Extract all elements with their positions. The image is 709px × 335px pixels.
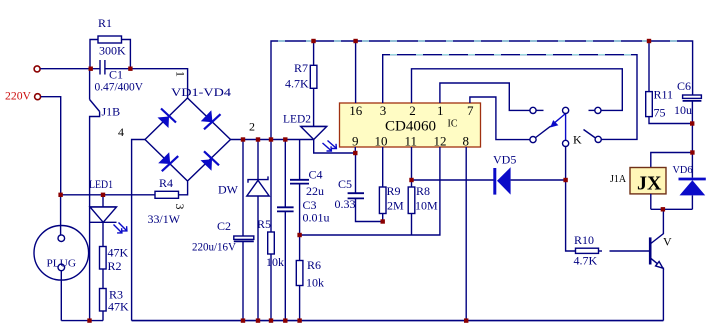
svg-text:JX: JX <box>637 173 662 195</box>
resistor R7 <box>310 41 317 127</box>
resistor R10 <box>576 248 651 253</box>
terminal input neutral <box>35 94 41 100</box>
svg-text:J1A: J1A <box>610 174 627 185</box>
diode VD1 top-left <box>158 109 177 129</box>
svg-text:DW: DW <box>218 183 239 197</box>
capacitor C4 <box>290 140 309 236</box>
svg-text:R6: R6 <box>307 258 321 272</box>
wire top rail cyan dash overlay <box>278 40 688 42</box>
svg-text:R10: R10 <box>574 233 594 247</box>
svg-text:11: 11 <box>405 134 418 149</box>
svg-text:16: 16 <box>349 103 363 118</box>
svg-text:VD5: VD5 <box>493 153 516 167</box>
svg-text:4: 4 <box>118 125 124 139</box>
pin 3 wire cyan dash overlay <box>390 54 633 56</box>
node T junction R5 bottom <box>269 318 273 322</box>
node V junction R6 bottom <box>297 318 301 322</box>
node X junction R11 C6 <box>690 121 694 125</box>
svg-text:1: 1 <box>437 103 444 118</box>
op-amp U1 CD4060 box <box>340 103 481 147</box>
resistor R8 <box>408 180 415 235</box>
svg-text:PLUG: PLUG <box>47 258 77 270</box>
resistor R1 <box>90 36 130 69</box>
node A junction R1C1 left <box>89 67 93 71</box>
svg-text:47K: 47K <box>108 246 129 260</box>
node J junction pin12 R6 C4 <box>297 233 301 237</box>
node Q junction VD5 K switch R10 <box>563 178 567 182</box>
svg-text:IC: IC <box>448 119 458 130</box>
wire LED2 cathode to pin 9 <box>314 140 356 154</box>
svg-text:4.7K: 4.7K <box>285 77 309 91</box>
svg-text:22u: 22u <box>306 184 324 198</box>
diode VD6 <box>679 153 706 210</box>
pin 8 wire to ground rail <box>465 147 467 321</box>
node F junction C2 top <box>241 137 245 141</box>
svg-text:R5: R5 <box>257 217 271 231</box>
svg-text:CD4060: CD4060 <box>385 119 436 135</box>
svg-text:9: 9 <box>352 134 359 149</box>
svg-text:0.33: 0.33 <box>335 197 356 211</box>
pin 3 feedback wire to switch F <box>383 55 637 140</box>
transistor V <box>650 209 663 320</box>
svg-text:8: 8 <box>463 134 470 149</box>
svg-text:C6: C6 <box>677 79 691 93</box>
svg-text:VD1-VD4: VD1-VD4 <box>171 85 231 99</box>
wire bridge minus to bottom rail <box>132 140 145 321</box>
resistor R2 <box>100 247 107 289</box>
diode VD2 top-right <box>201 110 221 129</box>
svg-text:R8: R8 <box>416 184 430 198</box>
node P junction pin11 R8 VD5 <box>409 178 413 182</box>
wire 1 net to bridge top <box>130 69 187 99</box>
resistor R11 <box>646 41 692 124</box>
wire top supply rail <box>271 41 693 140</box>
svg-text:C2: C2 <box>217 219 231 233</box>
resistor R4 <box>155 182 188 199</box>
capacitor C3 <box>277 140 294 321</box>
node S junction DW bottom <box>256 318 260 322</box>
LED LED1 <box>90 195 127 247</box>
node U junction C3 bottom <box>283 318 287 322</box>
svg-text:R4: R4 <box>159 176 173 190</box>
pin 12 wire down and left <box>300 147 440 235</box>
wire node 2 rail <box>231 139 314 141</box>
pin 9 stub <box>354 147 356 153</box>
node W junction pin8 bottom <box>464 318 468 322</box>
node E junction J1B bottom <box>87 318 91 322</box>
diode VD4 bottom-right <box>201 151 220 171</box>
svg-text:R9: R9 <box>387 184 401 198</box>
capacitor C6 <box>683 95 702 153</box>
resistor R5 <box>268 140 275 321</box>
node G junction DW top <box>256 137 260 141</box>
node K junction R7 top <box>311 39 315 43</box>
svg-text:10: 10 <box>375 134 388 149</box>
svg-text:0.01u: 0.01u <box>303 211 330 225</box>
node M junction R11 top <box>647 39 651 43</box>
node R junction C2 bottom <box>241 318 245 322</box>
svg-text:LED1: LED1 <box>89 177 113 191</box>
resistor R9 <box>379 147 386 222</box>
svg-text:220V: 220V <box>5 89 31 103</box>
svg-text:C4: C4 <box>309 168 323 182</box>
switch J1B <box>90 69 100 321</box>
svg-text:V: V <box>663 235 672 249</box>
node Z junction relay VD6 bottom collector <box>661 207 665 211</box>
svg-text:10u: 10u <box>674 103 692 117</box>
node H junction R5 top <box>269 137 273 141</box>
diode VD5 <box>495 167 566 194</box>
node I junction C3 top <box>283 137 287 141</box>
svg-text:7: 7 <box>467 103 474 118</box>
diode VD3 bottom-left <box>158 152 178 171</box>
svg-text:1: 1 <box>174 71 188 77</box>
svg-text:2: 2 <box>249 120 255 134</box>
wire switch E down to VD5 node and R10 <box>566 147 576 252</box>
wire LED1 row <box>61 194 155 196</box>
svg-text:75: 75 <box>654 106 666 120</box>
svg-text:300K: 300K <box>99 44 126 58</box>
svg-text:10k: 10k <box>266 255 284 269</box>
node N junction pin 9 <box>353 151 357 155</box>
svg-text:J1B: J1B <box>102 105 121 119</box>
node D junction LED1 anode <box>101 193 105 197</box>
pin 2 feedback wire to switch C <box>412 69 623 111</box>
svg-text:10M: 10M <box>415 199 438 213</box>
svg-text:3: 3 <box>173 204 187 210</box>
pin 11 stub <box>411 147 413 180</box>
svg-text:2M: 2M <box>387 199 404 213</box>
svg-text:10k: 10k <box>306 276 324 290</box>
relay J1A coil JX <box>630 153 692 210</box>
wire neutral down to LED1 row <box>41 97 61 195</box>
svg-text:220u/16V: 220u/16V <box>192 240 236 254</box>
node B junction R1C1 right <box>128 67 132 71</box>
pin labels CD4060 <box>349 103 474 149</box>
resistor R3 <box>100 289 107 321</box>
svg-text:K: K <box>573 133 582 147</box>
pin 16 wire to top rail <box>355 41 357 103</box>
LED LED2 <box>301 127 337 152</box>
node Y junction relay top <box>690 150 694 154</box>
terminal input live <box>34 66 40 72</box>
svg-text:4.7K: 4.7K <box>574 254 598 268</box>
wire bottom rail left segment <box>61 320 103 322</box>
wire live terminal to junction <box>40 68 89 70</box>
svg-text:R2: R2 <box>108 259 122 273</box>
capacitor C2 <box>234 140 254 321</box>
svg-text:R11: R11 <box>654 88 674 102</box>
svg-text:LED2: LED2 <box>283 112 311 126</box>
svg-text:47K: 47K <box>108 300 129 314</box>
capacitor C1 <box>90 60 130 75</box>
node O junction C5 R9 bottom <box>381 219 385 223</box>
svg-text:C5: C5 <box>338 177 352 191</box>
svg-text:0.47/400V: 0.47/400V <box>95 80 144 94</box>
svg-text:12: 12 <box>434 134 447 149</box>
wire bottom ground rail <box>132 320 664 322</box>
resistor R6 <box>296 235 303 321</box>
wire pin11 to VD5 <box>412 179 495 181</box>
plug P1 <box>34 195 89 321</box>
node C junction LED1 row left <box>58 193 62 197</box>
pin 1 feedback wire to switch A <box>440 83 530 110</box>
svg-text:2: 2 <box>409 103 416 118</box>
zener diode DW <box>247 140 269 321</box>
svg-text:R1: R1 <box>98 16 112 30</box>
bridge rectifier VD1-VD4 frame <box>145 98 231 181</box>
svg-text:R7: R7 <box>294 61 308 75</box>
pin 7 feedback wire to switch D <box>470 97 530 140</box>
svg-text:VD6: VD6 <box>673 165 693 176</box>
capacitor C5 <box>348 153 383 222</box>
switch K rotary contacts <box>530 107 601 146</box>
svg-text:3: 3 <box>380 103 387 118</box>
node L junction pin16 top <box>353 39 357 43</box>
svg-text:33/1W: 33/1W <box>148 212 181 226</box>
